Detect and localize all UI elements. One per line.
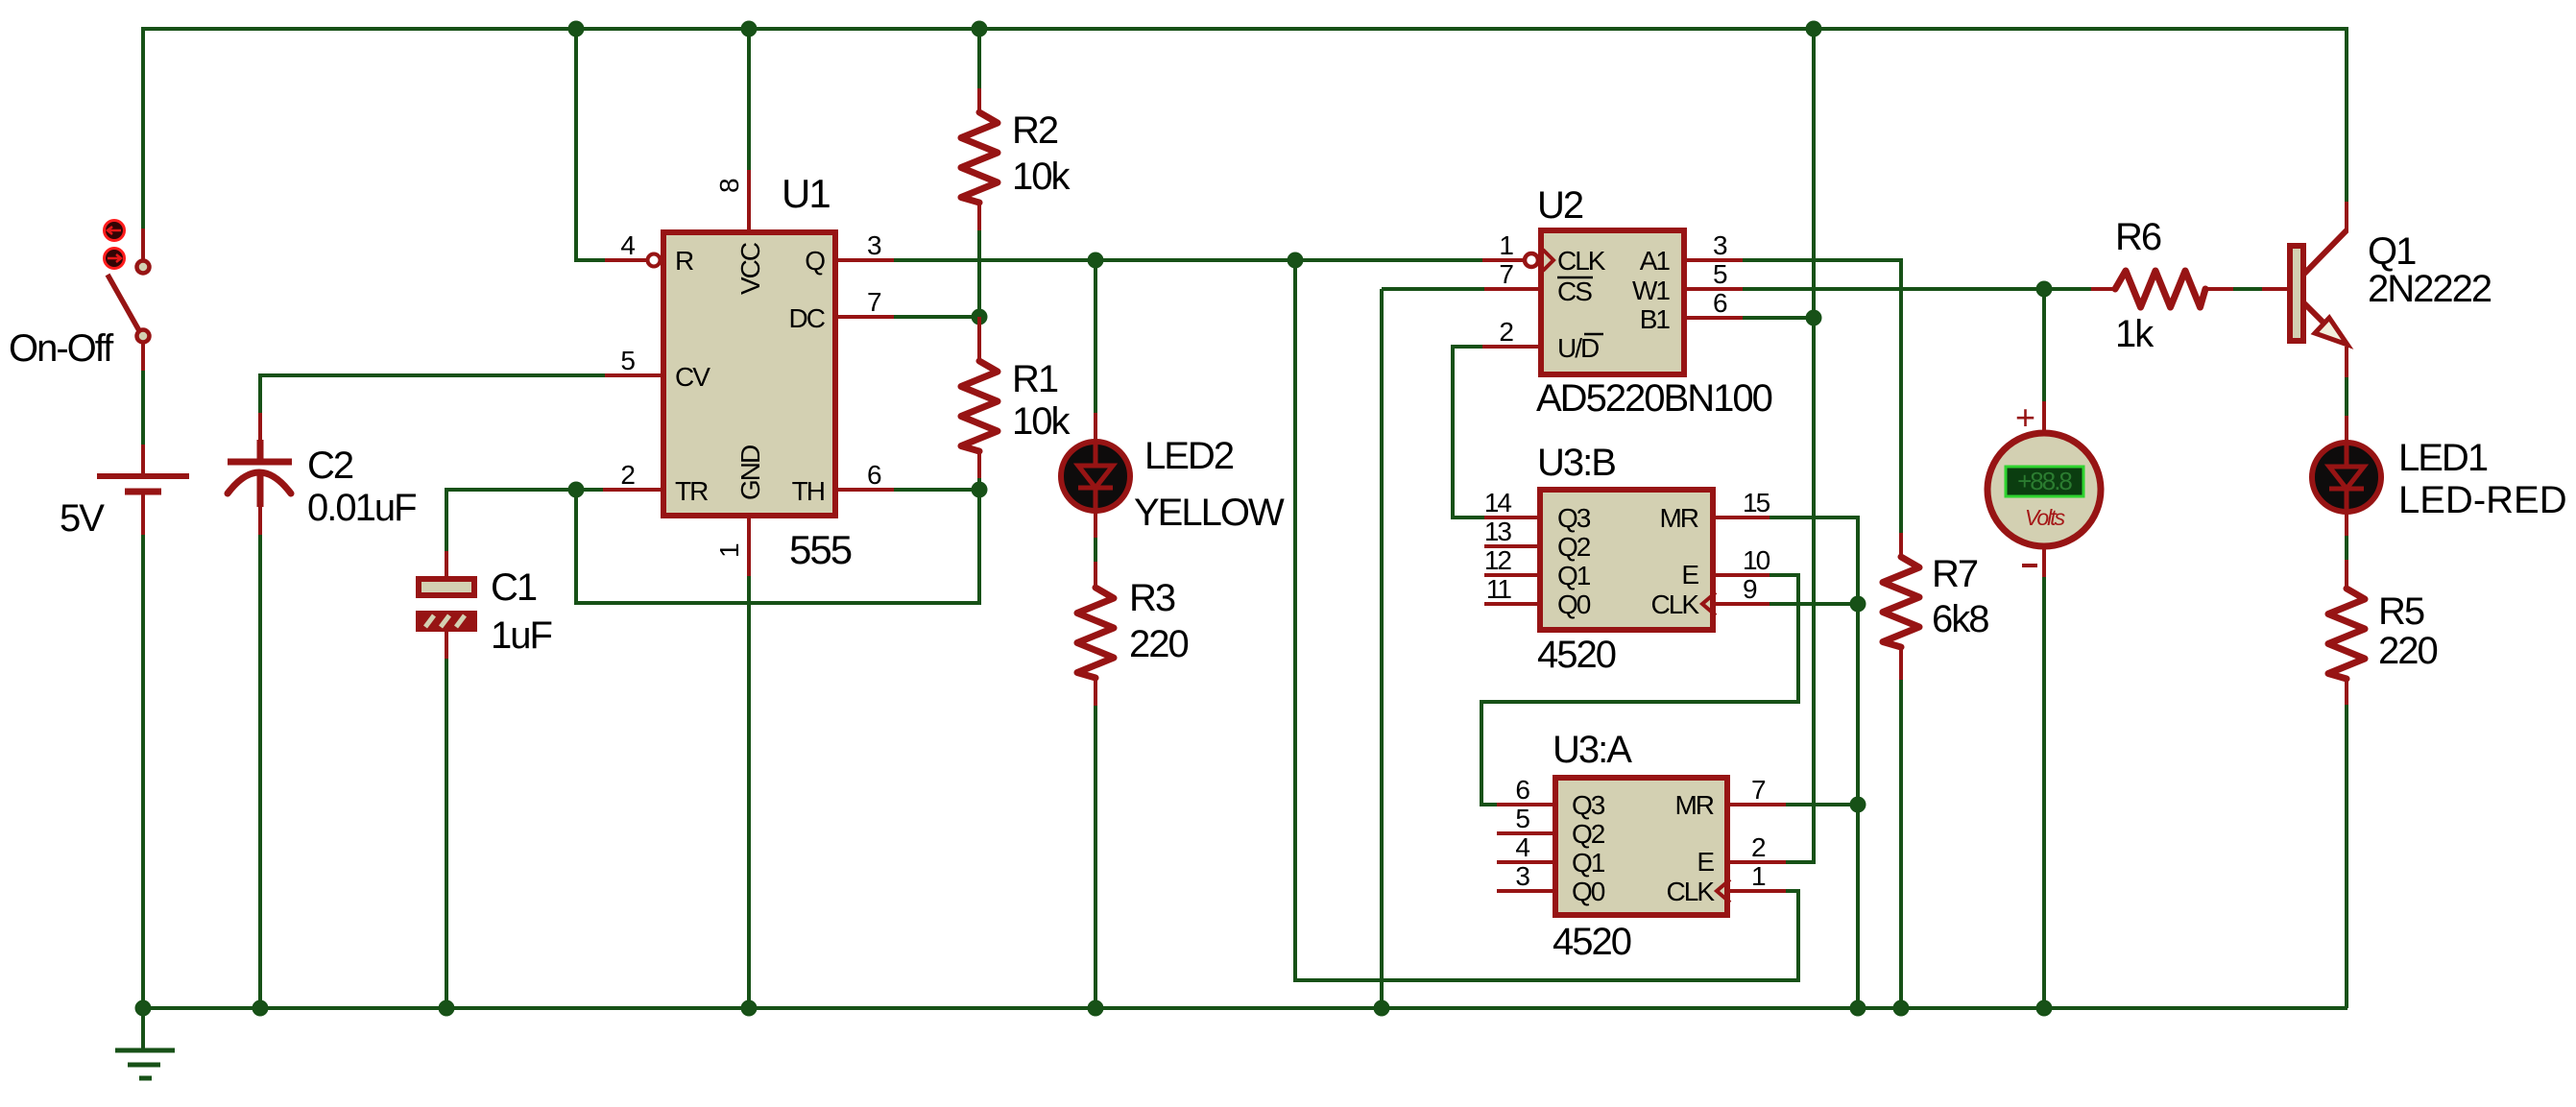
svg-text:4: 4	[1515, 832, 1529, 862]
capacitor C2 top stem	[257, 440, 264, 459]
wire U3:A MR to column	[1785, 803, 1858, 806]
svg-text:C1: C1	[491, 566, 537, 609]
svg-text:A1: A1	[1640, 246, 1671, 276]
svg-text:C2: C2	[307, 445, 353, 487]
U2 pin 2 UD stub	[1482, 345, 1538, 349]
U2 pin name CS with overline	[1557, 277, 1593, 306]
wire B1 to column	[1742, 316, 1814, 320]
switch toggle button up	[105, 221, 125, 241]
capacitor C2 curved plate	[228, 472, 291, 493]
wire collector from top rail	[2345, 27, 2348, 202]
wire TH pin to junction	[894, 488, 979, 492]
svg-text:9: 9	[1743, 574, 1757, 604]
svg-text:AD5220BN100: AD5220BN100	[1536, 377, 1772, 420]
wire CS net to bottom rail	[1380, 289, 1384, 1008]
junction MR7 / column	[1850, 797, 1866, 813]
svg-text:CLK: CLK	[1651, 590, 1700, 619]
U1 pin 7 DC stub	[838, 315, 894, 319]
svg-text:1: 1	[1751, 861, 1766, 891]
junction CLK9 / MR15 column	[1850, 596, 1866, 613]
resistor R5 top lead	[2345, 560, 2348, 589]
junction bottom rail / C1	[439, 1000, 455, 1017]
op-amp U1 555 body	[663, 232, 835, 516]
U3:B CLK edge marker	[1702, 592, 1716, 615]
wire R1 bottom to TH node	[977, 478, 981, 490]
svg-text:5: 5	[620, 346, 635, 375]
svg-text:10k: 10k	[1012, 156, 1071, 198]
svg-text:2N2222: 2N2222	[2368, 268, 2492, 310]
U3:B pin 13 Q2 stub	[1484, 544, 1537, 548]
svg-text:11: 11	[1486, 574, 1511, 604]
svg-text:LED-RED: LED-RED	[2398, 479, 2567, 521]
wire U1 pin1 GND to bottom rail	[747, 575, 751, 1008]
svg-text:1k: 1k	[2115, 313, 2155, 355]
capacitor C1 bottom lead	[445, 632, 448, 659]
U3:B pin 15 MR stub	[1716, 516, 1769, 519]
ground stem	[141, 1008, 145, 1048]
svg-text:R3: R3	[1129, 577, 1175, 619]
junction bottom rail / battery	[135, 1000, 152, 1017]
svg-text:+: +	[2015, 397, 2034, 437]
transistor Q1 emitter arrow	[2315, 318, 2347, 345]
transistor Q1 base bar	[2290, 246, 2303, 341]
svg-text:TH: TH	[792, 476, 824, 506]
LED1 anode lead	[2345, 416, 2348, 442]
U3:B pin 12 Q1 stub	[1484, 573, 1537, 577]
svg-text:10: 10	[1743, 545, 1770, 575]
svg-text:0.01uF: 0.01uF	[307, 487, 416, 529]
capacitor C1 top lead	[445, 551, 448, 578]
junction top rail / R-pin leg	[568, 21, 585, 37]
U3:B pin 9 CLK stub	[1716, 602, 1769, 606]
svg-text:R: R	[675, 246, 693, 276]
capacitor C2 bottom stem	[257, 472, 264, 507]
LED2 cathode lead	[1094, 512, 1097, 538]
svg-text:2: 2	[1499, 317, 1513, 347]
IC U3:B 4520 body	[1540, 490, 1713, 630]
svg-text:Q0: Q0	[1557, 590, 1591, 619]
svg-text:6: 6	[1713, 288, 1727, 318]
junction bottom rail / voltmeter	[2036, 1000, 2053, 1017]
junction B1 / column	[1806, 310, 1822, 326]
wire voltmeter plus lead	[2042, 289, 2046, 402]
junction bottom rail / R7	[1893, 1000, 1910, 1017]
U3:B pin 14 Q3 stub	[1484, 516, 1537, 519]
battery BT1 negative lead	[141, 494, 145, 535]
svg-text:CS: CS	[1557, 277, 1592, 306]
svg-text:U/D: U/D	[1557, 333, 1599, 363]
wire VCC drop to U1 pin 8	[747, 27, 751, 170]
svg-text:5: 5	[1515, 804, 1529, 833]
resistor R5 bottom lead	[2345, 679, 2348, 705]
voltmeter top lead	[2042, 401, 2046, 435]
wire switch to battery	[141, 370, 145, 445]
voltmeter body	[1987, 433, 2101, 546]
U1 pin 1 GND stub	[747, 517, 751, 576]
resistor R2 top lead	[977, 88, 981, 112]
svg-text:4520: 4520	[1537, 634, 1616, 676]
voltmeter display	[2006, 467, 2083, 496]
capacitor C1 top plate	[419, 579, 474, 595]
svg-text:E: E	[1681, 560, 1698, 590]
svg-text:On-Off: On-Off	[9, 327, 114, 370]
svg-text:Q2: Q2	[1557, 532, 1591, 562]
battery BT1 short plate	[125, 489, 161, 495]
capacitor C2 bottom lead	[258, 505, 262, 535]
U3:B pin 10 E stub	[1716, 573, 1769, 577]
svg-text:R1: R1	[1012, 358, 1058, 400]
svg-text:U3:A: U3:A	[1553, 729, 1632, 771]
LED2 anode lead	[1094, 413, 1097, 441]
U2 pin 1 CLK stub	[1482, 258, 1523, 262]
U1 pin 4 inversion bubble	[648, 254, 661, 267]
capacitor C2 top lead	[258, 413, 262, 442]
resistor R6 left lead	[2091, 287, 2115, 291]
voltmeter bottom lead	[2042, 546, 2046, 577]
U1 pin 8 VCC stub	[747, 170, 751, 230]
svg-text:2: 2	[1751, 832, 1766, 862]
svg-text:MR: MR	[1674, 790, 1713, 820]
junction top rail / R2	[972, 21, 988, 37]
svg-text:3: 3	[867, 230, 881, 260]
svg-text:VCC: VCC	[735, 242, 765, 295]
svg-text:15: 15	[1743, 488, 1770, 517]
junction bottom rail / MR column	[1850, 1000, 1866, 1017]
wire R5 to bottom rail	[2345, 704, 2348, 1008]
wire DC pin stub extension	[893, 315, 979, 319]
svg-text:4: 4	[620, 230, 635, 260]
LED1 symbol	[2312, 443, 2381, 512]
junction TR / C1	[568, 482, 585, 498]
resistor R3 bottom lead	[1094, 678, 1097, 706]
svg-text:6k8: 6k8	[1932, 598, 1988, 640]
svg-text:Q3: Q3	[1572, 790, 1605, 820]
switch SW On-Off upper contact lead	[141, 229, 145, 259]
svg-text:14: 14	[1484, 488, 1512, 517]
svg-text:CLK: CLK	[1557, 246, 1606, 276]
LED1 cathode lead	[2345, 513, 2348, 536]
svg-text:CLK: CLK	[1667, 877, 1716, 906]
svg-text:1: 1	[714, 543, 744, 558]
svg-text:GND: GND	[735, 445, 765, 500]
junction bottom rail / R3	[1088, 1000, 1104, 1017]
wire U3:B E to U3:A Q3	[1481, 575, 1798, 805]
wire R7 bottom to rail	[1899, 679, 1903, 1008]
resistor R7 bottom lead	[1899, 647, 1903, 680]
resistor R7 top lead	[1899, 533, 1903, 557]
wire R3 to bottom rail	[1094, 705, 1097, 1008]
resistor R5 body	[2328, 589, 2365, 679]
U2 pin name UD with overline	[1557, 333, 1603, 363]
junction TH / R1	[972, 482, 988, 498]
U1 pin 2 TR stub	[603, 488, 661, 492]
svg-text:CV: CV	[675, 362, 710, 392]
wire top power rail	[143, 27, 2347, 31]
junction bottom rail / CS	[1374, 1000, 1390, 1017]
junction Q line / down-leg	[1288, 253, 1304, 269]
U3:A pin 2 E stub	[1730, 860, 1786, 864]
svg-text:13: 13	[1484, 517, 1512, 546]
transistor Q1 collector	[2304, 230, 2347, 274]
svg-text:7: 7	[1499, 259, 1513, 289]
svg-text:+88.8: +88.8	[2017, 467, 2072, 495]
capacitor C2 top plate	[228, 459, 292, 466]
switch SW On-Off lower contact lead	[141, 344, 145, 371]
svg-text:TR: TR	[675, 476, 708, 506]
svg-text:2: 2	[620, 460, 635, 490]
wire R6 to Q1 base	[2232, 287, 2263, 291]
svg-text:8: 8	[714, 179, 744, 193]
svg-text:5: 5	[1713, 259, 1727, 289]
wire A1 to R7	[1742, 260, 1901, 533]
junction bottom rail / U1 GND	[741, 1000, 758, 1017]
svg-text:R6: R6	[2115, 216, 2161, 258]
svg-text:10k: 10k	[1012, 400, 1071, 443]
wire CV pin to C2	[260, 375, 605, 414]
svg-text:R2: R2	[1012, 109, 1058, 152]
wire battery to bottom rail	[141, 534, 145, 1008]
wire LED2 cathode to R3	[1094, 537, 1097, 563]
svg-text:B1: B1	[1640, 304, 1671, 334]
U2 pin 1 inversion bubble	[1525, 253, 1538, 267]
U2 pin 3 A1 stub	[1687, 258, 1743, 262]
wire TR pin to C1	[446, 490, 604, 552]
svg-text:W1: W1	[1632, 276, 1670, 305]
svg-text:Q0: Q0	[1572, 877, 1605, 906]
wire Q output line	[893, 258, 1482, 262]
wire voltmeter minus to rail	[2042, 576, 2046, 1008]
svg-text:LED2: LED2	[1144, 435, 1234, 477]
wire Q line down-leg to U3:A CLK	[1295, 260, 1798, 980]
U1 pin 6 TH stub	[838, 488, 894, 492]
svg-text:MR: MR	[1659, 503, 1697, 533]
battery BT1 long plate	[97, 473, 189, 479]
svg-text:Q3: Q3	[1557, 503, 1591, 533]
transistor Q1 base lead	[2262, 287, 2288, 291]
U2 pin 5 W1 stub	[1687, 287, 1743, 291]
resistor R1 body	[961, 361, 998, 451]
svg-text:12: 12	[1484, 545, 1512, 575]
U2 CLK edge marker	[1543, 250, 1553, 271]
wire LED1 to R5	[2345, 535, 2348, 561]
svg-text:Q1: Q1	[1557, 561, 1591, 590]
resistor R1 bottom lead	[977, 451, 981, 478]
junction Q line / LED2	[1088, 253, 1104, 269]
wire left rail top to switch	[141, 27, 145, 229]
resistor R6 body	[2115, 271, 2205, 307]
U1 pin 5 CV stub	[605, 373, 661, 377]
switch SW On-Off upper contact	[137, 261, 150, 274]
U3:A pin 5 Q2 stub	[1497, 831, 1553, 835]
resistor R2 bottom lead	[977, 203, 981, 230]
svg-text:1uF: 1uF	[491, 614, 551, 657]
switch toggle button down	[105, 249, 125, 269]
U1 pin 3 Q stub	[838, 258, 894, 262]
svg-text:E: E	[1697, 847, 1714, 877]
svg-text:6: 6	[1515, 775, 1529, 805]
wire TR to TH link under U1	[576, 490, 979, 603]
LED2 symbol	[1061, 442, 1130, 511]
wire bottom ground rail	[141, 1006, 2347, 1010]
junction DC / R2 / R1	[972, 309, 988, 325]
U2 pin 6 B1 stub	[1687, 316, 1743, 320]
U3:A pin 7 MR stub	[1730, 803, 1786, 806]
svg-text:1: 1	[1499, 230, 1513, 260]
ground symbol	[115, 1050, 175, 1078]
wire R2 bottom to DC node	[977, 229, 981, 317]
U2 pin 7 CS stub	[1484, 287, 1538, 291]
wire U3:B MR junction column	[1769, 517, 1858, 1008]
capacitor C1 bottom plate	[416, 611, 477, 632]
svg-text:U3:B: U3:B	[1537, 442, 1615, 484]
resistor R3 body	[1077, 588, 1114, 678]
U3:B pin 11 Q0 stub	[1484, 602, 1537, 606]
battery BT1 positive lead	[141, 445, 145, 473]
svg-text:3: 3	[1515, 861, 1529, 891]
wire C2 to bottom rail	[258, 534, 262, 1008]
wire U3:B CLK9 to column	[1769, 602, 1858, 606]
wire LED2 branch from Q line	[1094, 260, 1097, 414]
resistor R2 body	[961, 112, 998, 203]
U3:A pin 1 CLK stub	[1730, 889, 1786, 893]
voltmeter minus sign	[2022, 564, 2037, 567]
svg-text:R7: R7	[1932, 553, 1978, 595]
svg-text:LED1: LED1	[2398, 437, 2488, 479]
svg-text:R5: R5	[2378, 590, 2424, 633]
wire top rail to U1 R pin	[576, 27, 606, 260]
switch SW On-Off lever	[108, 275, 141, 334]
wire C1 to bottom rail	[445, 658, 448, 1008]
junction top rail / B1 column	[1806, 21, 1822, 37]
svg-text:YELLOW: YELLOW	[1134, 492, 1285, 534]
svg-text:Q1: Q1	[1572, 848, 1605, 878]
wire emitter to LED1	[2345, 376, 2348, 417]
svg-text:U1: U1	[782, 171, 830, 216]
U3:A pin 3 Q0 stub	[1497, 889, 1553, 893]
U3:A pin 4 Q1 stub	[1497, 860, 1553, 864]
IC U3:A 4520 body	[1555, 778, 1727, 915]
svg-text:DC: DC	[789, 303, 826, 333]
junction bottom rail / C2	[253, 1000, 269, 1017]
switch SW On-Off lower contact	[137, 330, 150, 343]
IC U2 AD5220 body	[1541, 230, 1684, 374]
resistor R3 top lead	[1094, 562, 1097, 588]
svg-text:Volts: Volts	[2025, 505, 2066, 530]
transistor Q1 emitter lead	[2345, 347, 2348, 377]
junction W1 / voltmeter	[2036, 281, 2053, 298]
resistor R7 body	[1883, 557, 1919, 647]
svg-text:555: 555	[789, 527, 852, 572]
svg-text:Q2: Q2	[1572, 819, 1605, 849]
U1 pin 4 R stub	[605, 258, 646, 262]
wire W1 to R6	[1742, 287, 2091, 291]
wire R2 top to rail	[977, 27, 981, 89]
svg-text:7: 7	[1751, 775, 1766, 805]
svg-text:3: 3	[1713, 230, 1727, 260]
junction top rail / VCC pin	[741, 21, 758, 37]
wire U/D to U3:B Q3	[1453, 347, 1484, 517]
transistor Q1 collector lead	[2345, 202, 2348, 232]
U3:A pin 6 Q3 stub	[1497, 803, 1553, 806]
U3:A CLK edge marker	[1717, 879, 1730, 902]
svg-text:Q1: Q1	[2368, 230, 2416, 273]
svg-text:Q: Q	[805, 246, 825, 276]
svg-text:6: 6	[867, 460, 881, 490]
transistor Q1 emitter	[2304, 303, 2329, 328]
svg-text:U2: U2	[1537, 184, 1583, 227]
resistor R1 top lead	[977, 317, 981, 361]
svg-text:220: 220	[2378, 630, 2437, 672]
resistor R6 right lead	[2205, 287, 2233, 291]
svg-text:7: 7	[867, 287, 881, 317]
svg-text:5V: 5V	[60, 497, 105, 540]
wire CS horizontal	[1382, 287, 1484, 291]
svg-text:4520: 4520	[1553, 921, 1631, 963]
svg-text:220: 220	[1129, 623, 1188, 665]
wire B1 column rail to U3:A E	[1785, 27, 1814, 862]
